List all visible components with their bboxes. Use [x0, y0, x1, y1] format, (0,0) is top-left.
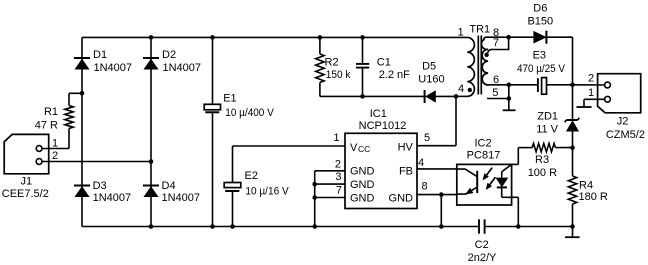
svg-text:R3: R3: [535, 154, 549, 166]
svg-text:FB: FB: [399, 165, 413, 177]
svg-text:C1: C1: [377, 57, 391, 69]
resistor R4 180R: [568, 148, 576, 227]
svg-text:R1: R1: [44, 106, 58, 118]
svg-text:GND: GND: [350, 179, 375, 191]
IC2 phototransistor: [457, 169, 477, 194]
resistor R1: [65, 93, 82, 128]
capacitor E3 470u/25V electrolytic: [538, 78, 573, 95]
wire TR1 pin 5 stub: [487, 98, 509, 100]
svg-text:10 µ/400 V: 10 µ/400 V: [225, 107, 274, 119]
junction node bottom right (R4 / C2 / ground): [570, 224, 575, 229]
wire J1 pin 2 to AC2 node (crosses AC1 column): [42, 161, 151, 163]
junction node pin8 / C2 branch: [439, 192, 444, 197]
svg-text:R4: R4: [579, 180, 593, 192]
svg-text:B150: B150: [527, 15, 553, 27]
svg-text:ZD1: ZD1: [537, 111, 558, 123]
wire TR1 pin 7 to pin 8 node: [488, 37, 509, 53]
svg-text:1N4007: 1N4007: [163, 62, 202, 74]
svg-text:5: 5: [424, 132, 430, 144]
junction node pin3 on GND vertical: [312, 182, 317, 187]
svg-text:2.2 nF: 2.2 nF: [379, 69, 410, 81]
svg-text:TR1: TR1: [469, 23, 490, 35]
diode D5 U160 snubber: [425, 90, 456, 103]
svg-text:U160: U160: [418, 74, 444, 86]
optocoupler IC2 PC817 box: [457, 164, 512, 205]
wire IC1 GND pins 2/3/7 to bottom rail: [315, 171, 345, 227]
svg-text:1N4007: 1N4007: [93, 192, 132, 204]
wire left vertical D1/D3 branch (AC1 column): [81, 37, 83, 226]
svg-text:11 V: 11 V: [536, 124, 558, 136]
IC2 LED: [496, 164, 511, 197]
svg-text:150 k: 150 k: [326, 69, 351, 81]
diode D2 1N4007: [143, 58, 159, 69]
svg-text:5: 5: [492, 87, 498, 99]
svg-text:C2: C2: [475, 239, 489, 251]
diode D3 1N4007: [74, 186, 90, 197]
svg-text:GND: GND: [350, 193, 375, 205]
svg-text:NCP1012: NCP1012: [359, 120, 407, 132]
diode D4 1N4007: [143, 186, 159, 197]
wire bridge column D2/D4 (AC2 column): [150, 37, 152, 226]
junction node R1 to AC1 column: [80, 91, 85, 96]
svg-text:470 µ/25 V: 470 µ/25 V: [517, 63, 566, 75]
svg-text:1N4007: 1N4007: [162, 192, 201, 204]
svg-text:IC2: IC2: [474, 137, 491, 149]
svg-text:GND: GND: [389, 193, 414, 205]
junction node bottom rail / E2: [230, 224, 235, 229]
svg-text:1: 1: [52, 137, 58, 149]
svg-text:1: 1: [458, 26, 464, 38]
svg-text:D2: D2: [162, 49, 176, 61]
transformer TR1 primary winding (pins 1-4): [467, 37, 474, 96]
junction node snubber line / C1: [360, 94, 365, 99]
junction node top rail / E1: [210, 35, 215, 40]
wire drain node to IC1 HV pin 5: [417, 96, 456, 145]
connector J1 CEE7.5/2: [4, 134, 49, 173]
svg-text:D1: D1: [93, 49, 107, 61]
svg-text:J2: J2: [617, 116, 629, 128]
wire IC1 FB pin 4 to IC2: [417, 168, 457, 170]
svg-text:GND: GND: [350, 165, 375, 177]
junction node +out / E3 / J2 pin 2: [570, 83, 575, 88]
junction node bottom rail / IC1 GND: [312, 224, 317, 229]
wire IC1 VCC pin 1 to E2: [233, 145, 346, 147]
TR1 secondary phasing dot: [484, 53, 488, 57]
wire IC2 LED cathode to secondary ground rail: [512, 197, 519, 226]
wire J2 pin 1 to ground: [584, 99, 605, 107]
svg-text:CC: CC: [358, 144, 370, 154]
junction node TR1 pins 7/8: [506, 35, 511, 40]
svg-text:3: 3: [335, 171, 341, 183]
diode D6 B150: [534, 31, 573, 44]
svg-text:E3: E3: [533, 49, 546, 61]
wire bottom rail (primary ground): [82, 226, 479, 228]
svg-text:D3: D3: [93, 180, 107, 192]
junction node pin 5 / ground vertical: [507, 96, 512, 101]
transformer TR1 core: [478, 36, 481, 95]
svg-text:8: 8: [422, 181, 428, 193]
wire TR1 pin 6 to secondary ground and E3: [490, 84, 538, 86]
svg-text:7: 7: [493, 37, 499, 49]
svg-text:4: 4: [418, 157, 424, 169]
svg-text:2n2/Y: 2n2/Y: [468, 252, 497, 264]
svg-text:PC817: PC817: [467, 150, 501, 162]
resistor R2 snubber: [316, 37, 324, 96]
svg-text:D5: D5: [422, 61, 436, 73]
resistor R3 100R: [518, 143, 572, 151]
svg-text:E2: E2: [245, 170, 258, 182]
svg-text:CEE7.5/2: CEE7.5/2: [2, 188, 49, 200]
op-amp IC1 NCP1012 controller box: [345, 133, 417, 208]
svg-text:E1: E1: [223, 93, 236, 105]
junction node ZD1 / R3 / R4: [570, 145, 575, 150]
ground secondary (TR1 pins 5/6): [503, 85, 516, 111]
wire drain node to TR1 pin 4: [456, 95, 467, 97]
ground bottom right: [565, 227, 580, 238]
svg-text:2: 2: [588, 73, 594, 85]
wire IC1 pin 8 to IC2 emitter: [417, 195, 457, 227]
svg-text:IC1: IC1: [370, 108, 387, 120]
svg-text:10 µ/16 V: 10 µ/16 V: [245, 186, 289, 198]
svg-text:J1: J1: [20, 176, 32, 188]
svg-text:4: 4: [458, 83, 464, 95]
svg-text:2: 2: [52, 150, 58, 162]
svg-text:CZM5/2: CZM5/2: [606, 129, 645, 141]
svg-text:D4: D4: [162, 180, 176, 192]
junction node bottom rail / pin8 branch: [439, 224, 444, 229]
junction node pin 6 / ground: [507, 83, 512, 88]
wire +out vertical from D6 down to E3 node: [572, 37, 574, 85]
svg-text:180 R: 180 R: [579, 191, 608, 203]
svg-text:V: V: [350, 142, 358, 154]
svg-text:47 R: 47 R: [35, 120, 58, 132]
junction node drain (TR1 pin4 / D5 / HV): [454, 94, 459, 99]
wire TR1 pin 8 to D6: [509, 36, 534, 38]
capacitor C1 snubber: [356, 37, 369, 96]
svg-text:2: 2: [335, 158, 341, 170]
svg-text:1: 1: [588, 87, 594, 99]
svg-text:1N4007: 1N4007: [94, 62, 133, 74]
zener diode ZD1 11V: [565, 85, 580, 148]
wire J1 pin 1 to R1: [42, 129, 69, 149]
junction node bottom rail / D4: [149, 224, 154, 229]
svg-text:100 R: 100 R: [528, 167, 557, 179]
svg-text:7: 7: [336, 185, 342, 197]
junction node top rail / R2: [318, 35, 323, 40]
capacitor E2 10u/16V electrolytic: [224, 146, 241, 227]
junction node pin7 on GND vertical: [312, 195, 317, 200]
capacitor E1 10u/400V electrolytic: [204, 37, 220, 226]
ground at J2 pin 1: [577, 106, 592, 108]
transformer TR1 secondary winding (pins 8/7 - 6/5): [481, 37, 508, 85]
junction node top rail / C1: [360, 35, 365, 40]
svg-text:HV: HV: [398, 142, 414, 154]
wire snubber bottom line R2/C1 to D5: [320, 95, 425, 97]
junction node secondary ground rail / LED cathode: [516, 224, 521, 229]
label IC1 VCC: [350, 142, 370, 154]
connector J2 CZM5/2: [598, 74, 641, 113]
svg-text:D6: D6: [533, 3, 547, 15]
wire +out to J2 pin 2: [573, 84, 605, 86]
capacitor C2 2n2/Y: [479, 219, 573, 233]
svg-text:R2: R2: [325, 57, 339, 69]
svg-text:1: 1: [333, 132, 339, 144]
junction node bottom rail / E1: [210, 224, 215, 229]
IC2 light arrows: [483, 168, 495, 189]
diode D1 1N4007: [74, 58, 90, 69]
wire IC2 LED anode to R3: [512, 148, 519, 165]
junction node top rail / D2: [149, 35, 154, 40]
wire top rail (+ bulk) from bridge to TR1 primary pin 1: [82, 36, 467, 38]
junction node AC2 on D2/D4 column: [149, 159, 154, 164]
TR1 primary phasing dot: [468, 88, 472, 92]
